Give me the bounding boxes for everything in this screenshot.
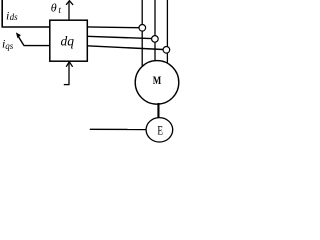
wire: phase line b vertical (154, 0, 156, 61)
wire: i_qs into dq block (24, 45, 50, 47)
svg-text:qs: qs (5, 41, 14, 51)
svg-text:ds: ds (10, 12, 19, 22)
svg-text:M: M (153, 73, 162, 87)
wire: phase line a vertical (141, 0, 143, 67)
node: connector a (139, 25, 146, 32)
label theta_e (51, 1, 62, 17)
shaft between motor and encoder (157, 103, 159, 119)
wire: phase line c vertical (166, 0, 168, 63)
label i_ds (6, 9, 18, 23)
motor M (135, 61, 179, 105)
arrow: i_qs output pointing up-left (16, 32, 24, 45)
arrow: rotor angle input into dq block bottom (64, 62, 73, 85)
svg-text:t: t (58, 6, 61, 16)
wire: encoder output to the left (90, 128, 147, 130)
arrow: theta output upward from dq block (66, 1, 73, 21)
block dq (50, 20, 88, 61)
wire: left frame vertical (1, 0, 3, 27)
encoder E (146, 118, 173, 142)
wire: phase c from dq block (87, 46, 163, 50)
svg-text:E: E (157, 124, 163, 138)
svg-text:dq: dq (61, 34, 75, 49)
label i_qs (2, 37, 14, 51)
wire: phase b from dq block (87, 36, 152, 38)
wire: phase a from dq block (87, 26, 139, 29)
node: connector b (152, 36, 159, 43)
wire: i_ds into dq block (2, 26, 51, 28)
node: connector c (163, 47, 170, 54)
svg-text:θ: θ (51, 1, 57, 15)
